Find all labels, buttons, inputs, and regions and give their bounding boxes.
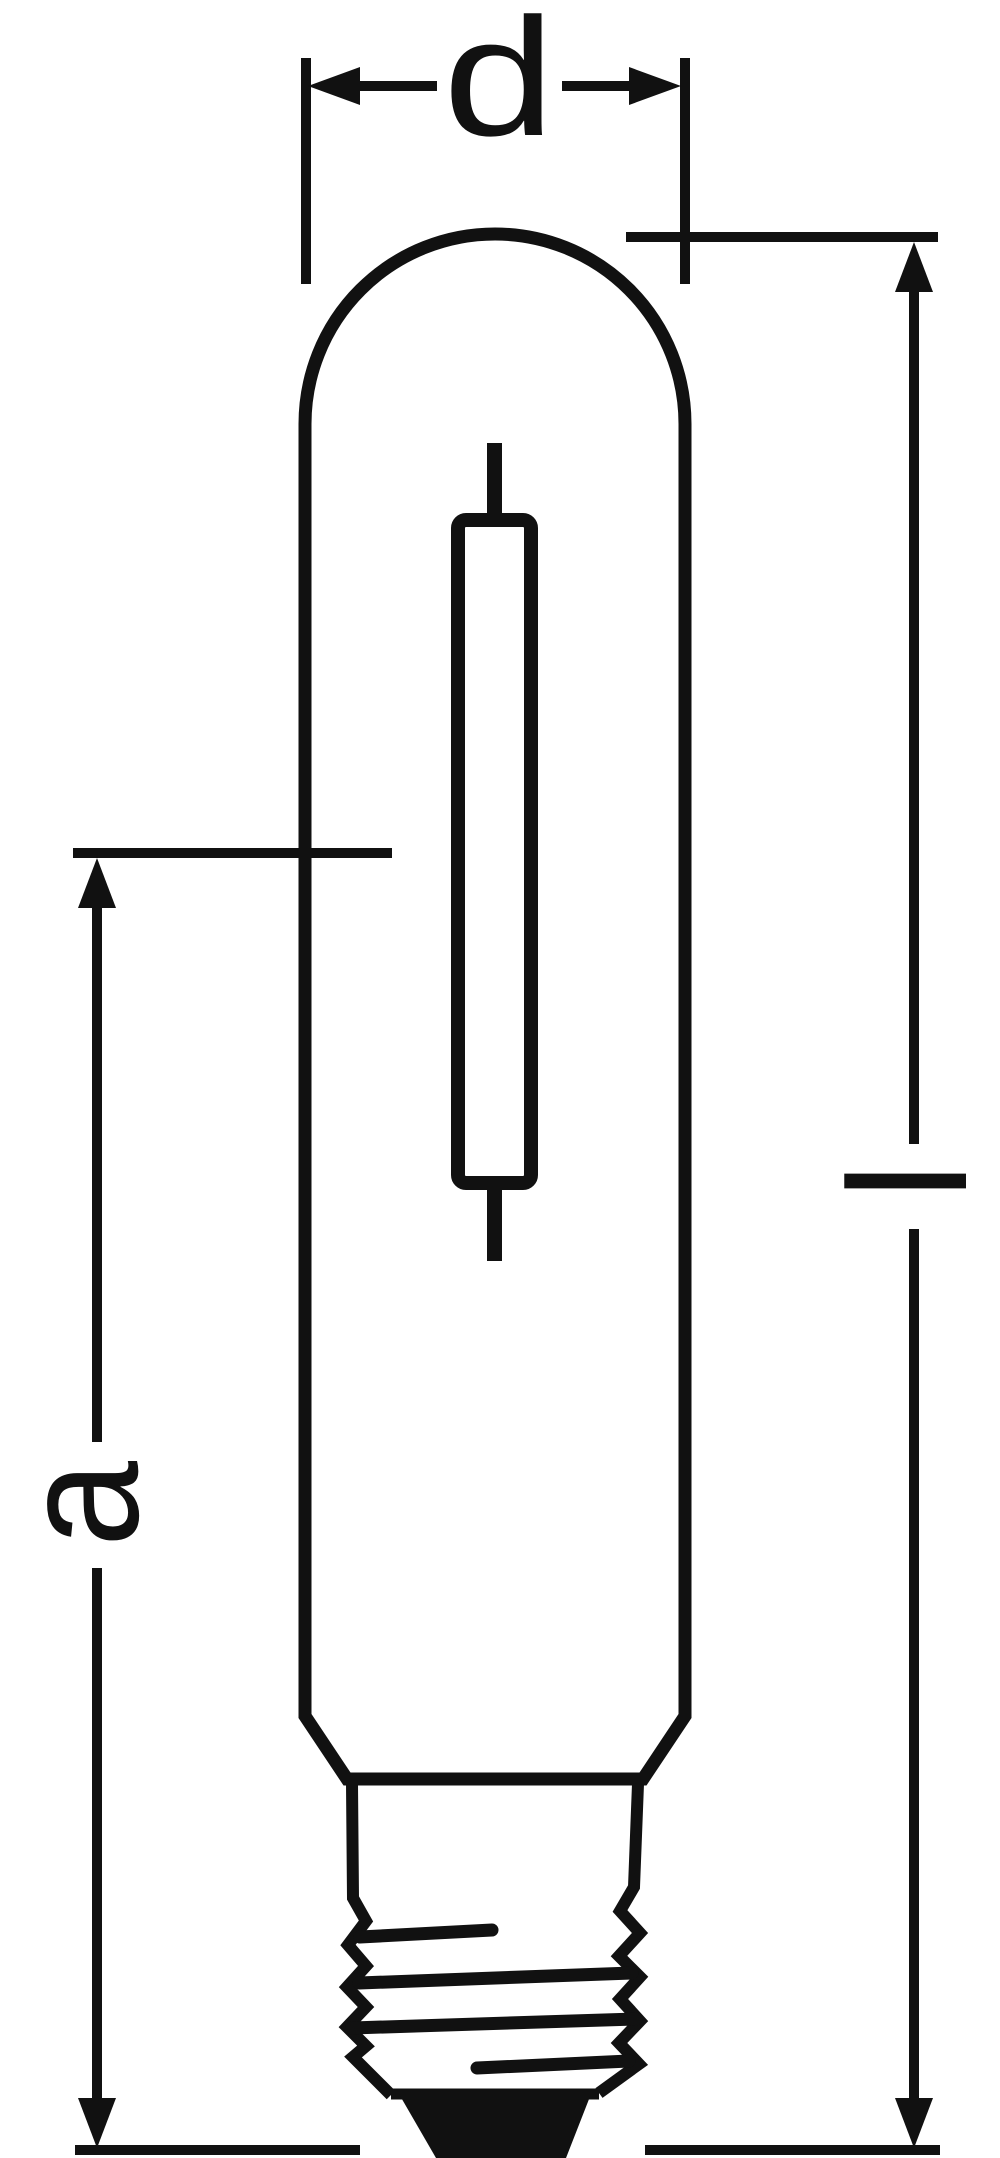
bottom baseline right segment	[645, 2145, 940, 2155]
dimension d: left extension line	[301, 58, 311, 284]
svg-text:a: a	[0, 1461, 174, 1547]
dimension l: vertical line lower segment	[909, 1229, 919, 2100]
base shell right side with screw thread zigzag	[599, 1784, 640, 2093]
dimension l: bottom arrow	[895, 2098, 933, 2148]
svg-text:l: l	[814, 1162, 1000, 1199]
thread line 4 (short, lower)	[477, 2061, 629, 2068]
dimension a: vertical line lower segment	[92, 1568, 102, 2100]
dimension a: top reference line	[73, 848, 392, 858]
base contact tip (filled)	[399, 2094, 591, 2158]
dimension d: left arrow	[358, 81, 437, 91]
dimension a: bottom arrow	[78, 2098, 116, 2148]
arc tube top lead wire	[487, 443, 502, 520]
bottom baseline left segment	[75, 2145, 360, 2155]
dimension l: top reference line	[626, 232, 938, 242]
bulb outer tube outline	[305, 234, 685, 1779]
dimension a: top arrow	[78, 858, 116, 908]
dimension d: right arrow	[562, 81, 629, 91]
dimension a: vertical line upper segment	[92, 904, 102, 1442]
dimension d: right extension line	[680, 58, 690, 284]
svg-text:d: d	[443, 0, 555, 171]
arc tube bottom lead wire	[487, 1185, 502, 1261]
thread line 3 (full)	[352, 2019, 636, 2028]
base shell left side with screw thread zigzag	[347, 1784, 391, 2095]
dimension l: top arrow	[895, 242, 933, 292]
inner arc tube	[458, 520, 531, 1183]
base top edge	[346, 1774, 646, 1785]
thread line 2 (full)	[359, 1973, 632, 1983]
base bottom edge	[391, 2089, 599, 2100]
dimension l: vertical line upper segment	[909, 288, 919, 1144]
thread line 1 (short, upper)	[360, 1930, 492, 1937]
